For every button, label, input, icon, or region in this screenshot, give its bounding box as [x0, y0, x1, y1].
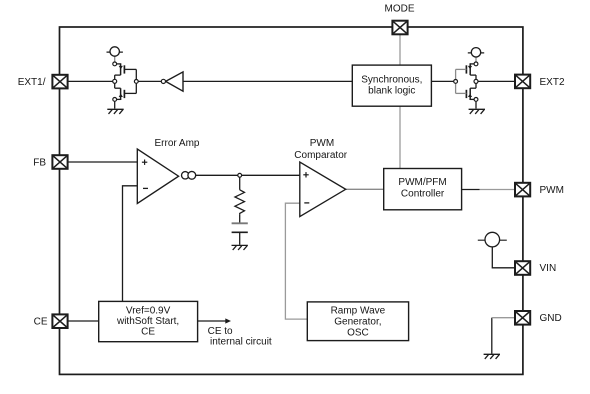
- svg-text:internal circuit: internal circuit: [210, 337, 272, 348]
- svg-text:CE: CE: [34, 317, 48, 328]
- svg-text:PWM/PFM: PWM/PFM: [398, 177, 446, 188]
- svg-text:CE to: CE to: [208, 326, 233, 337]
- svg-text:OSC: OSC: [347, 327, 369, 338]
- svg-text:Ramp Wave: Ramp Wave: [331, 306, 386, 317]
- svg-text:Synchronous,: Synchronous,: [361, 75, 422, 86]
- svg-text:withSoft Start,: withSoft Start,: [116, 316, 179, 327]
- svg-text:Error Amp: Error Amp: [154, 138, 199, 149]
- svg-text:Controller: Controller: [401, 189, 445, 200]
- svg-text:blank logic: blank logic: [368, 86, 415, 97]
- svg-text:GND: GND: [540, 313, 562, 324]
- svg-text:Generator,: Generator,: [334, 317, 381, 328]
- svg-text:VIN: VIN: [540, 263, 557, 274]
- svg-text:FB: FB: [33, 157, 46, 168]
- svg-text:Vref=0.9V: Vref=0.9V: [126, 306, 171, 317]
- svg-text:Comparator: Comparator: [294, 150, 347, 161]
- svg-text:PWM: PWM: [540, 185, 564, 196]
- svg-text:EXT2: EXT2: [540, 77, 565, 88]
- svg-text:MODE: MODE: [385, 4, 415, 15]
- svg-text:PWM: PWM: [310, 138, 334, 149]
- svg-text:EXT1/: EXT1/: [18, 77, 46, 88]
- svg-text:CE: CE: [141, 327, 155, 338]
